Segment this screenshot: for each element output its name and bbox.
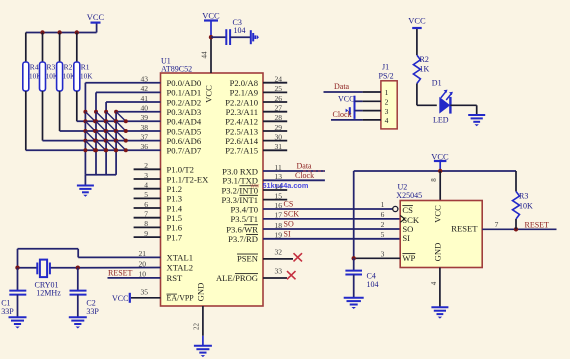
- svg-text:51ku44a.com: 51ku44a.com: [263, 181, 309, 190]
- svg-text:R1: R1: [81, 63, 90, 72]
- svg-text:P0.4/AD4: P0.4/AD4: [167, 117, 202, 127]
- svg-text:P0.0/AD0: P0.0/AD0: [167, 78, 202, 88]
- svg-text:10K: 10K: [80, 72, 93, 80]
- svg-text:CS: CS: [284, 200, 294, 209]
- svg-text:P0.5/AD5: P0.5/AD5: [167, 126, 202, 136]
- svg-text:P3.4/T0: P3.4/T0: [231, 204, 258, 214]
- svg-text:8: 8: [430, 178, 438, 182]
- svg-text:3: 3: [381, 250, 385, 259]
- svg-text:P1.6: P1.6: [167, 223, 183, 233]
- svg-text:27: 27: [275, 104, 283, 113]
- svg-text:SI: SI: [402, 233, 410, 243]
- svg-text:CS: CS: [402, 205, 413, 215]
- svg-text:18: 18: [275, 221, 283, 230]
- svg-text:5: 5: [144, 190, 148, 199]
- svg-text:10K: 10K: [519, 201, 533, 210]
- svg-text:P1.7: P1.7: [167, 232, 183, 242]
- svg-text:P1.0/T2: P1.0/T2: [167, 165, 194, 175]
- svg-text:XTAL1: XTAL1: [167, 253, 194, 263]
- svg-text:1: 1: [385, 88, 389, 97]
- svg-text:11: 11: [275, 163, 282, 172]
- svg-text:P2.3/A11: P2.3/A11: [226, 107, 258, 117]
- svg-text:33P: 33P: [1, 307, 14, 316]
- svg-text:44: 44: [200, 51, 208, 59]
- svg-text:P3.5/T1: P3.5/T1: [231, 214, 258, 224]
- svg-text:4: 4: [430, 281, 438, 285]
- svg-text:8: 8: [144, 219, 148, 228]
- svg-text:Clock: Clock: [295, 171, 314, 180]
- svg-text:R3: R3: [519, 192, 528, 201]
- svg-text:13: 13: [275, 172, 283, 181]
- svg-text:P1.5: P1.5: [167, 213, 183, 223]
- svg-text:SCK: SCK: [284, 210, 300, 219]
- svg-text:29: 29: [275, 123, 283, 132]
- svg-text:R3: R3: [47, 63, 56, 72]
- svg-text:X25045: X25045: [396, 191, 422, 200]
- svg-text:PS/2: PS/2: [379, 72, 394, 81]
- svg-text:30: 30: [275, 132, 283, 141]
- svg-text:31: 31: [275, 142, 283, 151]
- svg-text:C4: C4: [367, 271, 376, 280]
- svg-text:VCC: VCC: [433, 205, 443, 223]
- svg-text:GND: GND: [433, 243, 443, 262]
- svg-text:28: 28: [275, 113, 283, 122]
- svg-text:SO: SO: [284, 220, 294, 229]
- svg-text:P0.6/AD6: P0.6/AD6: [167, 136, 202, 146]
- svg-text:RST: RST: [167, 273, 184, 283]
- svg-text:VCC: VCC: [408, 15, 426, 25]
- svg-text:Data: Data: [334, 82, 350, 91]
- svg-text:ALE/PROG: ALE/PROG: [216, 273, 258, 283]
- svg-text:P3.6/WR: P3.6/WR: [226, 224, 258, 234]
- svg-text:6: 6: [381, 210, 385, 219]
- svg-text:RESET: RESET: [451, 224, 478, 234]
- svg-text:VCC: VCC: [87, 12, 105, 22]
- svg-text:XTAL2: XTAL2: [167, 263, 194, 273]
- svg-text:ww: ww: [250, 184, 260, 190]
- svg-text:P0.1/AD1: P0.1/AD1: [167, 88, 202, 98]
- svg-text:VCC: VCC: [204, 85, 214, 103]
- svg-text:3: 3: [144, 171, 148, 180]
- svg-text:33: 33: [275, 266, 283, 275]
- svg-text:EA/VPP: EA/VPP: [167, 294, 195, 303]
- svg-text:1: 1: [381, 200, 385, 209]
- svg-text:R2: R2: [64, 63, 73, 72]
- svg-text:22: 22: [193, 323, 201, 331]
- svg-text:RESET: RESET: [108, 269, 133, 278]
- svg-text:104: 104: [234, 26, 246, 35]
- svg-text:R2: R2: [420, 55, 429, 64]
- svg-text:GND: GND: [195, 283, 205, 302]
- svg-text:D1: D1: [432, 78, 442, 87]
- svg-text:2: 2: [385, 98, 389, 107]
- svg-text:19: 19: [275, 231, 283, 240]
- svg-text:Data: Data: [297, 161, 313, 170]
- svg-text:5: 5: [381, 230, 385, 239]
- svg-text:7: 7: [495, 220, 499, 229]
- svg-text:17: 17: [275, 211, 283, 220]
- svg-text:RESET: RESET: [525, 220, 550, 229]
- svg-text:P2.2/A10: P2.2/A10: [225, 97, 258, 107]
- svg-text:P2.5/A13: P2.5/A13: [225, 126, 258, 136]
- svg-text:15: 15: [275, 191, 283, 200]
- svg-text:104: 104: [367, 280, 379, 289]
- svg-text:P1.2: P1.2: [167, 184, 183, 194]
- svg-text:AT89C52: AT89C52: [161, 65, 192, 74]
- svg-text:2: 2: [144, 161, 148, 170]
- svg-text:P2.1/A9: P2.1/A9: [230, 88, 258, 98]
- svg-text:J1: J1: [382, 63, 389, 72]
- svg-text:1K: 1K: [420, 65, 430, 74]
- svg-text:VCC: VCC: [112, 294, 128, 303]
- svg-text:2: 2: [381, 220, 385, 229]
- svg-text:P2.4/A12: P2.4/A12: [225, 117, 258, 127]
- svg-text:P0.7/AD7: P0.7/AD7: [167, 146, 202, 156]
- svg-text:9: 9: [144, 229, 148, 238]
- svg-text:4: 4: [385, 116, 389, 125]
- svg-text:Clock: Clock: [333, 110, 352, 119]
- svg-text:P2.7/A15: P2.7/A15: [225, 146, 258, 156]
- svg-text:WP: WP: [402, 253, 415, 263]
- svg-text:P0.2/AD2: P0.2/AD2: [167, 97, 202, 107]
- svg-text:VCC: VCC: [202, 11, 220, 21]
- svg-text:24: 24: [275, 75, 283, 84]
- svg-text:7: 7: [144, 210, 148, 219]
- svg-text:P1.3: P1.3: [167, 194, 183, 204]
- svg-text:PSEN: PSEN: [237, 254, 259, 264]
- svg-text:LED: LED: [433, 115, 449, 124]
- svg-text:VCC: VCC: [431, 151, 449, 161]
- svg-text:P1.4: P1.4: [167, 203, 183, 213]
- svg-text:26: 26: [275, 94, 283, 103]
- svg-text:16: 16: [275, 201, 283, 210]
- svg-text:12MHz: 12MHz: [36, 289, 61, 298]
- svg-text:35: 35: [141, 288, 149, 297]
- svg-text:SI: SI: [284, 229, 291, 238]
- svg-text:VCC: VCC: [338, 95, 354, 104]
- svg-text:P1.1/T2-EX: P1.1/T2-EX: [167, 174, 210, 184]
- svg-text:32: 32: [275, 247, 283, 256]
- svg-text:P3.7/RD: P3.7/RD: [228, 234, 258, 244]
- svg-text:6: 6: [144, 200, 148, 209]
- svg-text:P2.0/A8: P2.0/A8: [230, 78, 258, 88]
- svg-text:25: 25: [275, 84, 283, 93]
- svg-text:P0.3/AD3: P0.3/AD3: [167, 107, 202, 117]
- svg-text:4: 4: [144, 181, 148, 190]
- svg-text:33P: 33P: [86, 307, 99, 316]
- svg-text:3: 3: [385, 107, 389, 116]
- svg-text:P2.6/A14: P2.6/A14: [225, 136, 258, 146]
- svg-text:R4: R4: [30, 63, 39, 72]
